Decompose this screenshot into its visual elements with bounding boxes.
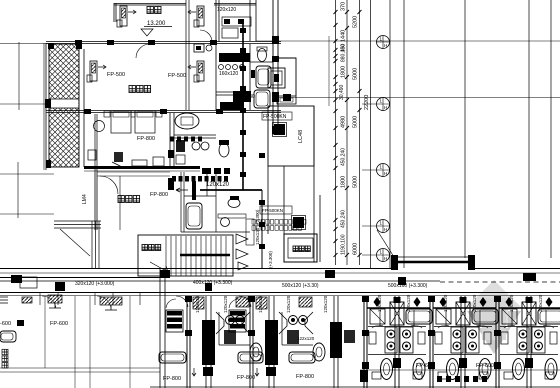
bedroom2 left wall xyxy=(95,114,97,167)
dimension ticks xyxy=(334,10,362,257)
duct arrow left xyxy=(176,188,188,192)
wc circles xyxy=(226,316,235,325)
suite bath walls xyxy=(170,113,174,167)
right wing wall xyxy=(273,0,278,135)
svg-text:5000: 5000 xyxy=(353,68,359,80)
party walls xyxy=(364,296,433,388)
left verticals xyxy=(45,296,130,388)
left FCU 2 xyxy=(100,297,122,305)
stair treads xyxy=(166,236,226,276)
bottom horizontal lines left xyxy=(0,368,160,372)
svg-text:6000: 6000 xyxy=(353,243,359,255)
dimension chain lines xyxy=(336,0,371,268)
svg-text:450,240: 450,240 xyxy=(341,148,347,166)
door arc bedroom xyxy=(200,30,212,42)
svg-text:FP-500: FP-500 xyxy=(107,72,125,78)
bottom thin line xyxy=(360,369,560,371)
third stack partial xyxy=(289,295,355,388)
central pipes xyxy=(395,296,399,388)
svg-text:120x120: 120x120 xyxy=(217,7,236,13)
balcony outer wall xyxy=(46,43,84,170)
svg-text:1800: 1800 xyxy=(341,66,347,78)
bedroom label xyxy=(147,7,153,14)
bubble leaders xyxy=(362,104,376,255)
corridor recess band xyxy=(394,261,475,264)
bath walls xyxy=(368,310,426,355)
stepped wall bundle xyxy=(54,221,101,228)
wc suite xyxy=(219,143,229,157)
riser line vertical xyxy=(261,190,263,268)
dimension texts xyxy=(339,2,370,255)
corridor bottom wall xyxy=(0,292,560,294)
guard bath sink xyxy=(221,218,230,227)
guard room label xyxy=(118,196,124,203)
center duct riser xyxy=(242,20,244,190)
riser stack black xyxy=(202,320,215,365)
living room top wall xyxy=(46,42,281,44)
right wing toilet xyxy=(258,49,267,62)
svg-text:880,100: 880,100 xyxy=(341,44,347,62)
guard left wall xyxy=(95,167,97,230)
svg-text:-600: -600 xyxy=(0,321,11,327)
note annotation box xyxy=(246,219,254,245)
shaft wall verticals xyxy=(268,106,320,262)
bottom edge line xyxy=(150,386,560,388)
shaft grille 2 xyxy=(293,217,304,228)
hatched dark block xyxy=(224,330,236,344)
hall lines mid xyxy=(97,172,170,230)
tub right xyxy=(406,309,432,324)
valve triangles xyxy=(236,234,248,270)
level triangle xyxy=(141,29,153,36)
svg-text:120x120: 120x120 xyxy=(206,182,230,188)
bottom dash row xyxy=(360,370,487,382)
bedroom left wall xyxy=(114,3,116,22)
bath walls xyxy=(219,312,250,345)
stair box xyxy=(138,235,233,276)
axis bubble 1 xyxy=(377,36,390,49)
stair label xyxy=(142,245,148,251)
watermark logo xyxy=(467,280,521,354)
tv cabinet xyxy=(132,160,147,166)
wall dash row xyxy=(202,168,230,174)
svg-text:FP-800: FP-800 xyxy=(237,375,255,381)
svg-text:LM4: LM4 xyxy=(82,194,88,204)
wall columns bottom xyxy=(84,109,223,114)
bedroom top wall xyxy=(114,4,256,6)
svg-text:FP-800: FP-800 xyxy=(296,374,314,380)
bed 1 xyxy=(111,111,131,133)
bottom blocks xyxy=(203,367,213,376)
wardrobe left xyxy=(370,309,385,324)
svg-text:400x120 (+3.300): 400x120 (+3.300) xyxy=(193,280,233,286)
wc cluster left xyxy=(385,327,397,353)
svg-text:FP-800: FP-800 xyxy=(150,192,168,198)
svg-text:5000: 5000 xyxy=(353,116,359,128)
FCU corridor left xyxy=(20,277,37,288)
dumbwaiter shaft xyxy=(278,58,296,96)
svg-text:1190,100: 1190,100 xyxy=(341,234,347,255)
down arrow xyxy=(192,368,196,376)
svg-text:(+3.300): (+3.300) xyxy=(268,251,273,268)
left margin vertical tick xyxy=(18,42,19,218)
top band xyxy=(367,307,430,309)
central shaft with X xyxy=(390,302,404,325)
svg-text:120x120 (+3.300): 120x120 (+3.300) xyxy=(255,209,260,245)
svg-text:370: 370 xyxy=(341,2,347,11)
suite bath fixtures dark xyxy=(176,140,185,152)
balcony outer double wall xyxy=(43,43,45,170)
right wing wall fills xyxy=(272,36,279,134)
entry chevron xyxy=(216,312,250,334)
door alcoves xyxy=(40,292,140,305)
chair dark xyxy=(114,152,123,162)
axis bubble 3 xyxy=(377,164,390,177)
svg-text:450,240: 450,240 xyxy=(341,210,347,228)
party wall xyxy=(187,296,190,388)
right wing inner walls xyxy=(250,44,273,110)
right wing tub 2 xyxy=(254,90,270,108)
door arc living xyxy=(136,44,150,58)
shower tray xyxy=(222,28,238,38)
svg-text:30,490: 30,490 xyxy=(339,84,345,100)
svg-text:500x120 (+3.30): 500x120 (+3.30) xyxy=(282,283,319,289)
left FCU 1b xyxy=(48,295,62,303)
shaft grille xyxy=(274,124,285,135)
shaft outline xyxy=(268,106,314,166)
svg-text:FP-600: FP-600 xyxy=(50,321,68,327)
annotation text small xyxy=(252,220,255,225)
svg-text:FP-800: FP-800 xyxy=(163,376,181,382)
door arcs xyxy=(372,325,422,328)
corridor duct boxes xyxy=(11,270,536,291)
svg-text:120x120: 120x120 xyxy=(195,295,200,313)
door diamonds xyxy=(374,297,421,307)
diagonal leader xyxy=(377,230,394,257)
FP-500KN label top xyxy=(262,112,292,120)
axis bubble 5 xyxy=(377,249,390,262)
bed 2 xyxy=(135,111,155,133)
FCU bedroom left xyxy=(117,6,127,27)
side sinks xyxy=(369,332,376,344)
oval tub suite xyxy=(175,113,199,129)
living room label xyxy=(129,86,135,93)
corridor top wall xyxy=(0,268,560,270)
top bath fixtures xyxy=(222,17,251,26)
balcony sill blocks xyxy=(45,99,51,108)
round table xyxy=(94,121,105,132)
center black joint xyxy=(393,358,401,368)
hall door arc xyxy=(100,176,118,194)
right wing tub xyxy=(256,66,271,88)
left FCU 1 xyxy=(22,297,32,303)
entry arcs xyxy=(166,296,188,308)
svg-text:FP-600: FP-600 xyxy=(476,363,494,369)
sink counter dark xyxy=(166,310,183,332)
stair arrow xyxy=(150,262,168,272)
right long horizontals xyxy=(256,41,560,98)
axis bubble 4 xyxy=(377,220,390,233)
oval wc left xyxy=(381,359,393,380)
svg-text:120x120: 120x120 xyxy=(406,294,411,312)
LM4 label xyxy=(82,194,88,204)
120x120 labels vertical xyxy=(195,295,200,313)
svg-text:122x120: 122x120 xyxy=(297,336,315,341)
svg-text:22200: 22200 xyxy=(364,95,370,110)
sofa xyxy=(88,150,96,160)
elevator label xyxy=(293,246,298,252)
svg-text:500x160 (+3.300): 500x160 (+3.300) xyxy=(388,283,428,289)
svg-text:320x120 (+3.000): 320x120 (+3.000) xyxy=(75,281,115,287)
fcu grille dash rows xyxy=(168,137,228,201)
wall columns xyxy=(48,40,217,49)
FCU bedroom right xyxy=(194,6,204,27)
guard duct line xyxy=(200,189,262,191)
guard wc xyxy=(228,199,240,208)
living room bottom wall xyxy=(46,111,281,113)
guard bathtub xyxy=(186,203,202,229)
hall wall mid xyxy=(216,0,219,110)
svg-text:120x120: 120x120 xyxy=(223,295,228,313)
svg-text:13.200: 13.200 xyxy=(147,21,166,27)
elevator box xyxy=(284,234,317,262)
svg-text:LC48: LC48 xyxy=(298,130,304,143)
wardrobe top right xyxy=(236,297,249,307)
balcony divider xyxy=(50,99,79,108)
svg-text:1440: 1440 xyxy=(341,30,347,42)
oval wc right xyxy=(413,359,425,380)
balcony hatch xyxy=(49,44,79,167)
wardrobe top left xyxy=(193,297,204,309)
svg-text:160x120: 160x120 xyxy=(219,71,238,77)
LC48 label xyxy=(298,130,304,143)
axis bubble 2 xyxy=(377,98,390,111)
center hall wall left xyxy=(186,0,189,110)
FCU living left xyxy=(87,61,97,82)
120x120 vertical labels xyxy=(377,294,382,312)
left vertical room label xyxy=(2,349,8,368)
left margin grid lines xyxy=(0,44,54,215)
svg-text:FP-500KN: FP-500KN xyxy=(262,208,283,213)
bedroom right wall xyxy=(250,0,256,41)
top-right long verticals xyxy=(390,0,551,268)
guard bath walls xyxy=(181,172,250,232)
corridor upper duct edge left xyxy=(0,277,160,279)
corridor inner line xyxy=(0,272,560,274)
bedroom2 bottom wall thick xyxy=(84,166,200,169)
svg-text:5000: 5000 xyxy=(353,176,359,188)
stack pipes xyxy=(206,296,211,388)
corner tub partial xyxy=(0,331,16,342)
closet shelf black row xyxy=(219,53,250,62)
leader vline xyxy=(328,36,330,106)
FCU living right xyxy=(194,61,204,82)
wc oval xyxy=(250,343,262,361)
nightstands xyxy=(104,111,110,117)
svg-text:4980: 4980 xyxy=(341,116,347,128)
svg-text:FP-800: FP-800 xyxy=(137,136,155,142)
wc cluster right xyxy=(400,327,413,353)
svg-text:FP-500KN: FP-500KN xyxy=(263,114,287,120)
hall dark band xyxy=(220,102,244,110)
small marks far left xyxy=(0,297,8,303)
svg-text:5200: 5200 xyxy=(353,16,359,28)
bench xyxy=(277,96,296,104)
recess posts xyxy=(391,255,398,270)
tub 2 xyxy=(238,352,263,363)
svg-text:FP-500: FP-500 xyxy=(168,73,186,79)
svg-text:1800: 1800 xyxy=(341,176,347,188)
bottom small rects xyxy=(372,372,381,379)
spot circle row xyxy=(219,65,245,70)
svg-text:120x120: 120x120 xyxy=(323,295,328,313)
tub 1 xyxy=(159,352,186,363)
svg-text:FP-600: FP-600 xyxy=(416,363,434,369)
basin pair xyxy=(194,44,204,52)
stair rail xyxy=(180,254,230,256)
corridor duct xyxy=(0,280,440,282)
small dark appliance xyxy=(251,70,255,78)
